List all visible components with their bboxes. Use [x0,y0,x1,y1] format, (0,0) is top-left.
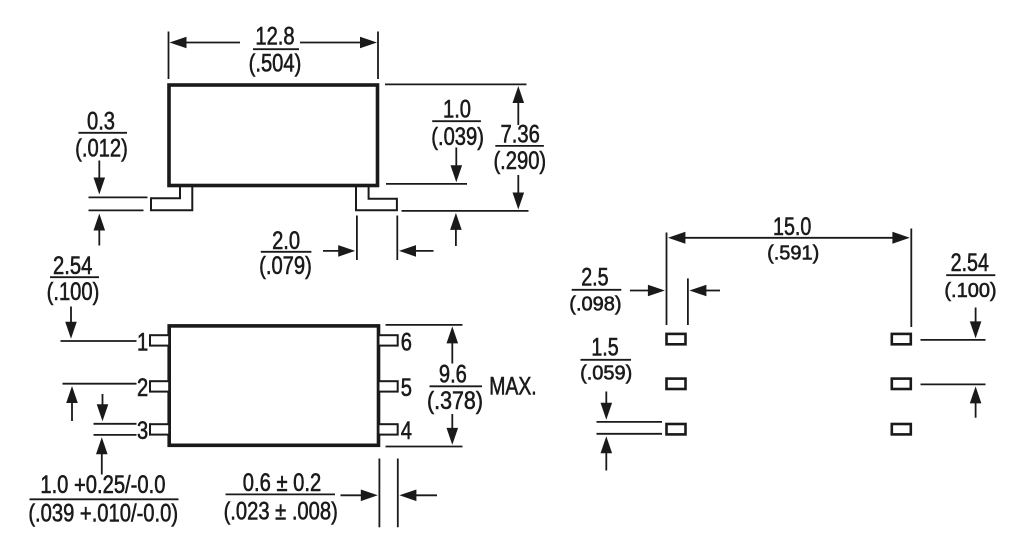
label MAX [489,374,537,401]
body top extension line [385,83,527,85]
pin 3 top edge extension [94,423,137,425]
dimension 0.3 extension line top [89,196,148,198]
dimension 7.36 arrow down [513,175,525,210]
pin number 5 [401,375,412,402]
pin 3 terminal [150,424,169,434]
dimension 15.0 extension line right [910,229,912,328]
dimension 2.54 left arrow down [65,307,77,339]
svg-text:2.54: 2.54 [53,253,92,280]
dimension label 2.0 (.079) [259,228,312,280]
dimension 2.5 arrow left [689,285,720,297]
svg-text:6: 6 [401,329,412,356]
svg-text:(.012): (.012) [75,135,128,162]
dimension 1.0+0.25 arrow up [96,437,108,474]
svg-text:(.290): (.290) [493,148,546,175]
pad A3 top edge extension [597,421,663,423]
svg-text:1: 1 [137,329,148,356]
dimension 2.54 left arrow up [66,386,78,421]
svg-text:9.6: 9.6 [439,362,467,389]
dimension 2.5 extension line [687,278,689,325]
body bottom extension line [386,183,467,185]
dimension 7.36 arrow up [513,86,525,125]
svg-text:(.591): (.591) [767,243,819,265]
dimension label 7.36 (.290) [493,121,546,175]
dimension 12.8 arrow left [170,37,241,49]
dimension 15.0 arrow left [668,232,789,244]
pin number 4 [401,418,412,445]
svg-text:(.023 ± .008): (.023 ± .008) [224,499,338,526]
pad A2 [667,379,686,389]
pin 6 terminal [379,335,398,345]
svg-text:2.54: 2.54 [951,249,989,277]
svg-text:(.504): (.504) [249,51,302,78]
svg-text:(.098): (.098) [569,293,621,315]
svg-text:1.0 +0.25/-0.0: 1.0 +0.25/-0.0 [40,472,165,499]
pin 1 centreline extension [61,340,137,342]
svg-text:(.079): (.079) [259,253,312,280]
svg-text:MAX.: MAX. [489,374,537,401]
dimension 2.0 arrow left [399,245,434,257]
dimension 2.0 extension line right [396,216,398,261]
dimension 1.0 upper arrow [451,148,463,183]
svg-text:2.0: 2.0 [272,228,300,255]
svg-text:1.0: 1.0 [443,97,471,124]
dimension 2.5 arrow right [630,285,665,297]
svg-text:15.0: 15.0 [773,213,811,241]
pad A3 [667,424,686,434]
dimension label 2.54 (.100) right [944,249,996,302]
svg-text:12.8: 12.8 [255,23,294,50]
pin 3 bottom edge extension [94,434,137,436]
package body bottom view [169,326,378,445]
pin number 1 [137,329,148,356]
svg-text:5: 5 [401,375,412,402]
svg-text:7.36: 7.36 [501,121,540,148]
dimension 9.6 arrow down [447,414,459,445]
body top extension line bottom view [386,324,463,326]
dimension label 2.54 (.100) left [47,253,100,306]
dimension 0.6 arrow left [399,490,437,502]
svg-text:0.6 ± 0.2: 0.6 ± 0.2 [243,470,321,497]
pad B2 [892,379,911,389]
pin 2 terminal [150,381,169,391]
dimension label 1.5 (.059) [580,333,632,384]
pin number 6 [401,329,412,356]
svg-text:(.059): (.059) [580,363,632,385]
svg-text:2: 2 [137,375,148,402]
pad A1 [667,334,686,344]
pin 5 terminal [379,381,398,391]
body bottom extension line bottom view [386,446,463,448]
dimension 0.6 extension line right [397,459,399,528]
dimension 0.3 upper arrow [94,161,106,195]
pin number 2 [137,375,148,402]
svg-text:2.5: 2.5 [581,263,608,291]
pad B1 centreline extension [921,339,986,341]
dimension 0.3 extension line bottom [89,209,144,211]
dimension label 0.3 (.012) [75,109,128,163]
dimension 12.8 arrow right [300,37,377,49]
dimension 12.8 extension line left [168,32,170,80]
svg-text:(.378): (.378) [427,388,483,415]
pad B3 [892,424,911,434]
dimension 1.5 arrow up [601,436,613,470]
dimension label 1.0 (.039) [431,97,484,151]
dimension label 2.5 (.098) [569,263,621,315]
svg-text:3: 3 [137,418,148,445]
dimension 2.0 arrow right [323,245,355,257]
dimension 9.6 arrow up [447,326,459,363]
dimension label 15.0 (.591) [767,213,819,264]
dimension 15.0 arrow right [789,232,910,244]
right gull-wing lead [356,186,397,211]
svg-text:(.039): (.039) [431,124,484,151]
dimension 2.0 extension line left [356,216,358,261]
svg-text:4: 4 [401,418,412,445]
dimension 15.0 extension line left [666,233,668,326]
dimension 2.54 right arrow up [970,386,982,417]
pin number 3 [137,418,148,445]
dimension 1.0+0.25 arrow down [97,394,109,421]
left gull-wing lead [151,186,192,211]
dimension 0.3 lower arrow [94,214,106,246]
dimension 1.0 lower arrow [450,213,462,246]
pin 1 terminal [150,335,169,345]
svg-text:(.100): (.100) [944,280,996,302]
dimension label 12.8 (.504) [249,23,302,77]
seating plane extension line [402,210,529,212]
pad A3 bottom edge extension [597,433,663,435]
svg-text:(.100): (.100) [47,279,100,306]
svg-text:0.3: 0.3 [87,109,115,136]
svg-text:1.5: 1.5 [591,333,618,361]
svg-text:(.039 +.010/-0.0): (.039 +.010/-0.0) [28,500,178,527]
dimension label 9.6 (.378) [427,362,483,415]
pin 2 centreline extension [63,383,137,385]
package body side view [169,85,378,186]
dimension 0.6 arrow right [341,490,378,502]
dimension label 0.6 &#177; 0.2 [224,470,338,526]
dimension 1.5 arrow down [601,392,613,420]
dimension 2.54 right arrow down [970,308,982,339]
pin 4 terminal [379,424,398,434]
pad B2 centreline extension [921,383,986,385]
dimension label 1.0 +0.25/-0.0 [28,472,178,527]
dimension 0.6 extension line left [378,459,380,528]
pad B1 [892,334,911,344]
dimension 12.8 extension line right [377,32,379,80]
